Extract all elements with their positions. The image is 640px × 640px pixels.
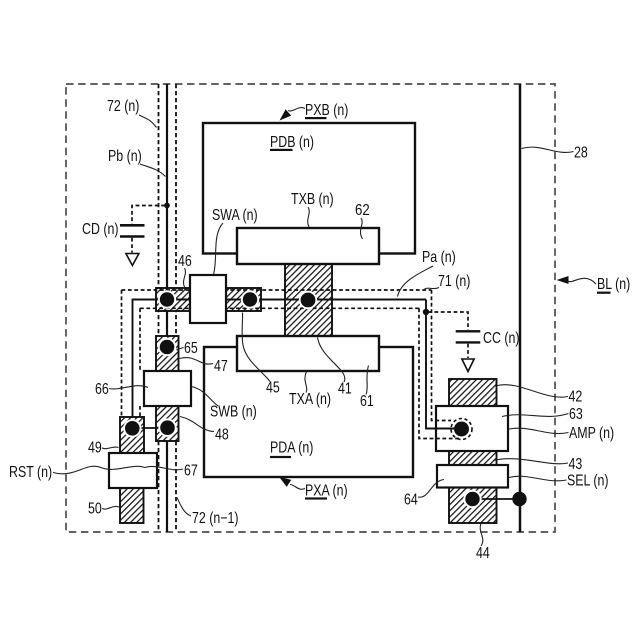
svg-text:46: 46	[178, 252, 192, 270]
svg-text:Pa (n): Pa (n)	[422, 248, 456, 266]
svg-text:44: 44	[476, 544, 490, 562]
leader 43	[493, 459, 568, 464]
gate block 44 (hatched)	[449, 487, 497, 523]
svg-text:41: 41	[338, 379, 352, 397]
svg-text:SWA (n): SWA (n)	[212, 206, 258, 224]
svg-text:47: 47	[214, 357, 228, 375]
ground arrow below CC(n) (open triangle)	[462, 359, 474, 372]
dashed wiring outline left of 71(n), x=121.5	[121, 290, 123, 417]
svg-text:Pb (n): Pb (n)	[108, 147, 142, 165]
svg-text:CD (n): CD (n)	[82, 220, 118, 238]
svg-text:SEL (n): SEL (n)	[567, 471, 609, 489]
leader AMP(n)	[509, 428, 569, 433]
dashed wiring outline right of 71(n), x=139	[139, 308, 141, 417]
leader RST(n)	[53, 466, 145, 474]
switch box SWB 66	[144, 371, 191, 406]
svg-text:PDB (n): PDB (n)	[270, 133, 314, 151]
svg-text:72 (n): 72 (n)	[107, 97, 139, 115]
leader 72(n)	[139, 115, 157, 128]
label PDA(n)	[270, 438, 313, 458]
dashed branch to capacitor CD(n)	[132, 206, 165, 225]
gate block 43 (hatched)	[449, 450, 497, 466]
contact dot on bar right (45)	[241, 290, 259, 308]
leader TXA(n)	[305, 372, 307, 393]
svg-text:67: 67	[184, 461, 198, 479]
svg-text:48: 48	[215, 425, 229, 443]
svg-text:49: 49	[88, 438, 102, 456]
contact dot 65	[158, 338, 176, 356]
svg-text:28: 28	[574, 143, 588, 161]
svg-text:63: 63	[569, 405, 583, 423]
svg-text:PXA (n): PXA (n)	[305, 481, 348, 499]
svg-text:42: 42	[569, 387, 583, 405]
label PXA(n)	[305, 481, 348, 499]
dashed outline 71(n) right inner branch	[419, 308, 461, 438]
svg-text:65: 65	[184, 339, 198, 357]
leader 72(n-1)	[177, 498, 191, 517]
svg-text:61: 61	[360, 392, 374, 410]
leader 62	[360, 218, 362, 239]
wire link contacts in 44 to BL	[472, 498, 520, 500]
svg-text:43: 43	[569, 455, 583, 473]
leader arrow PXA(n)	[279, 477, 305, 489]
wire 72(n-1) right dashed vertical	[175, 84, 177, 532]
svg-text:50: 50	[88, 499, 102, 517]
svg-text:62: 62	[355, 202, 370, 219]
svg-text:71 (n): 71 (n)	[438, 272, 470, 290]
leader arrow PXB(n)	[280, 108, 306, 121]
dashed outline 71(n) top, y=290	[122, 289, 432, 291]
leader 64	[418, 480, 444, 498]
dashed circle around AMP gate contact	[451, 419, 472, 440]
switch box SWA 46	[190, 275, 226, 323]
photodiode box PDB(n)	[203, 123, 415, 254]
contact dot on BL line	[512, 492, 526, 506]
leader 71(n)	[425, 288, 440, 290]
gate block 41 (central vertical hatched)	[285, 262, 332, 338]
wire link contacts 49-48	[131, 427, 168, 429]
transfer gate bar TXB 62	[237, 228, 379, 264]
gate block 48 (hatched)	[156, 405, 179, 441]
label PXB(n)	[305, 101, 348, 120]
svg-text:BL (n): BL (n)	[597, 275, 630, 293]
dashed outline 71(n) bottom, y=307.5	[140, 307, 419, 309]
contact dot in block 49	[123, 419, 141, 437]
contact dot on bar left (Pb)	[158, 290, 176, 308]
svg-text:TXB (n): TXB (n)	[291, 190, 334, 208]
svg-text:AMP (n): AMP (n)	[569, 424, 614, 442]
leader SEL(n)	[509, 476, 567, 481]
leader 66	[109, 386, 148, 389]
svg-text:SWB (n): SWB (n)	[210, 402, 257, 420]
leader 28	[522, 147, 574, 152]
contact dot in block 48	[158, 419, 176, 437]
svg-text:PXB (n): PXB (n)	[305, 101, 348, 119]
dashed below CC(n)	[467, 344, 469, 358]
leader arrow BL(n)	[557, 276, 597, 284]
leader SWB(n)	[192, 387, 219, 407]
dashed outline 71(n) right outer branch	[432, 290, 452, 421]
gate strip 45 (hatched horizontal bar of SWA)	[156, 288, 261, 311]
leader 41	[318, 338, 345, 383]
dashed below CD(n)	[131, 238, 133, 253]
leader 46	[183, 268, 185, 287]
leader 44	[480, 524, 483, 547]
wire Pa(n) vertical + to AMP gate	[426, 300, 461, 429]
label PDB(n)	[270, 133, 314, 151]
leader TXB(n)	[308, 207, 310, 227]
capacitor CC(n) plates	[456, 331, 481, 342]
leader 42	[498, 385, 569, 397]
wire Pb(n) solid vertical	[166, 84, 168, 532]
contact dot on block 41	[299, 291, 317, 309]
photodiode box PDA(n)	[204, 347, 413, 477]
leader 61	[366, 366, 369, 395]
gate block 50 (hatched)	[120, 488, 144, 523]
gate block 49 (hatched)	[120, 417, 144, 453]
svg-text:66: 66	[95, 380, 109, 398]
junction dot Pa(n)/CC(n)	[423, 309, 429, 315]
ground arrow below CD(n) (open triangle)	[126, 254, 139, 266]
wire Pa(n) horizontal solid	[155, 299, 426, 301]
contact dot in block 44	[463, 490, 481, 508]
leader 65	[177, 348, 184, 351]
svg-text:72 (n−1): 72 (n−1)	[192, 509, 238, 527]
dashed branch to capacitor CC(n)	[428, 312, 468, 330]
leader Pb(n)	[140, 164, 166, 177]
label BL(n)	[597, 275, 630, 294]
junction dot CD(n)/Pb(n)	[164, 203, 170, 209]
leader Pa(n)	[398, 266, 434, 297]
leader 67	[145, 466, 183, 469]
svg-text:TXA (n): TXA (n)	[289, 390, 331, 408]
svg-text:45: 45	[266, 378, 280, 396]
svg-text:CC (n): CC (n)	[483, 329, 519, 347]
leader 47	[180, 358, 214, 365]
leader SWA(n)	[214, 223, 224, 275]
leader 48	[180, 417, 214, 432]
wire BL(n) solid vertical	[519, 84, 522, 532]
capacitor CD(n) plates	[120, 225, 145, 236]
leader 49	[102, 447, 119, 449]
leader 45	[242, 313, 270, 382]
leader 63	[502, 414, 569, 417]
select box SEL 64	[437, 465, 508, 488]
svg-text:64: 64	[404, 490, 418, 508]
contact dot AMP gate	[454, 422, 469, 437]
svg-text:RST (n): RST (n)	[9, 463, 52, 481]
amplifier box AMP 63	[436, 406, 508, 451]
transfer gate bar TXA 61	[237, 336, 379, 371]
gate block 47 (hatched)	[156, 336, 179, 372]
pixel boundary 28 (outer dashed rectangle)	[66, 84, 555, 532]
svg-text:PDA (n): PDA (n)	[270, 438, 313, 456]
wire from contact 49 up (solid, node 71 path)	[133, 300, 168, 429]
reset box RST 67	[109, 453, 157, 488]
gate block 42 (hatched)	[449, 379, 497, 407]
leader 50	[102, 506, 119, 509]
wire 72(n) left dashed vertical	[158, 84, 160, 532]
